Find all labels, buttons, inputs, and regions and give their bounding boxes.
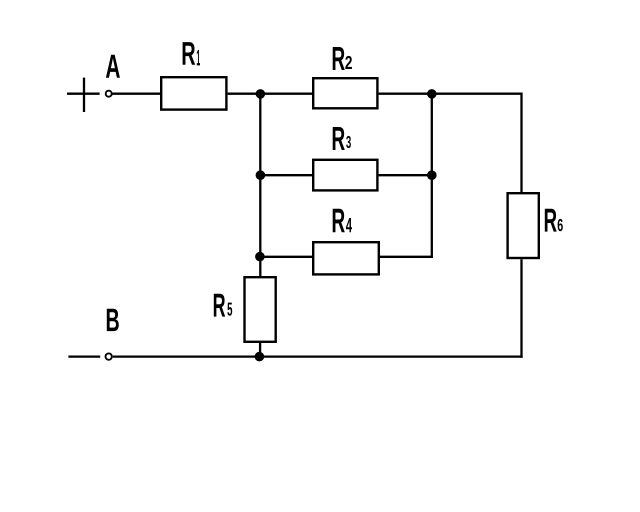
label R2 [333, 47, 352, 70]
label A [106, 55, 120, 78]
wire R3 to node 4 [379, 174, 432, 176]
node 2 junction dot [427, 89, 437, 99]
wire node 5 to R4 [260, 256, 313, 258]
node B junction dot [255, 352, 265, 362]
wire terminal A to R1 [112, 93, 161, 95]
resistor R1 [161, 77, 226, 109]
label R1 [183, 42, 200, 65]
resistor R2 [313, 78, 377, 108]
terminal A cross mark [67, 78, 100, 112]
node 5 junction dot (left bus / R4 / R5) [255, 252, 265, 262]
wire R1 to node 1 to R2 [228, 93, 313, 95]
wire right bus: node 2 down to R4 wire [431, 94, 433, 257]
resistor R6 [508, 193, 539, 258]
label R5 [214, 294, 232, 317]
node 4 junction dot (right bus / R3) [427, 170, 437, 180]
wire R4 to right bus [380, 256, 433, 258]
label B [107, 309, 119, 331]
resistor R4 [313, 242, 379, 274]
wire left bus: node 1 down to R5 [259, 94, 261, 277]
terminal A contact circle [106, 91, 112, 97]
wire R5 to node B [259, 343, 261, 357]
node 3 junction dot (left bus / R3) [256, 170, 266, 180]
resistor R3 [313, 160, 377, 191]
label R4 [333, 209, 352, 232]
wire node 3 to R3 [260, 174, 313, 176]
resistor R5 [245, 277, 276, 342]
label R6 [545, 209, 563, 232]
wire R2 to node 2 to top-right corner, down to R6 [379, 94, 522, 193]
node 1 junction dot [256, 89, 266, 99]
bottom wire: terminal B to bottom-right corner [113, 355, 523, 357]
terminal B contact circle [106, 353, 112, 359]
terminal B lead stub [68, 355, 100, 357]
label R3 [333, 127, 351, 150]
wire R6 down to bottom-right corner [520, 259, 522, 358]
